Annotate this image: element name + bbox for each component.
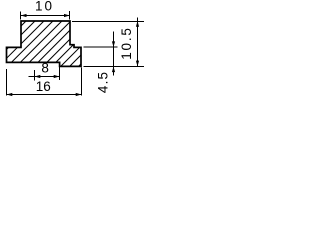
arrow left of dim 10 xyxy=(21,14,27,17)
arrow above (outside) of dim 4.5 xyxy=(112,41,115,47)
dimension 10 (top) xyxy=(21,11,70,20)
dimension line xyxy=(29,76,60,78)
part outline (stepped T-section) xyxy=(7,21,82,66)
dimension 10.5 (right, full height) xyxy=(72,18,144,67)
arrow left of dim 8 xyxy=(35,75,41,78)
dimension line xyxy=(21,15,70,17)
extension line left xyxy=(6,69,8,96)
arrow right of dim 10 xyxy=(64,14,70,17)
svg-text:4.5: 4.5 xyxy=(95,71,110,93)
extension line left xyxy=(20,12,22,20)
svg-text:8: 8 xyxy=(41,61,49,76)
hatching xyxy=(2,0,145,82)
extension line bottom xyxy=(84,66,145,68)
extension line top xyxy=(84,46,118,48)
arrow right of dim 8 xyxy=(54,75,60,78)
dimension 16 (bottom overall) xyxy=(7,68,82,96)
arrow top of dim 10.5 xyxy=(136,21,139,27)
dimension 4.5 (right, step to bottom) xyxy=(84,32,118,76)
dimension line xyxy=(7,94,82,96)
extension line right xyxy=(69,11,71,20)
svg-text:16: 16 xyxy=(36,79,51,94)
svg-text:10: 10 xyxy=(35,0,54,13)
extension line left xyxy=(34,70,36,81)
dimension 8 (bottom step) xyxy=(29,67,60,81)
dimension line xyxy=(113,32,115,76)
arrow bottom of dim 10.5 xyxy=(136,61,139,67)
arrow below (outside) of dim 4.5 xyxy=(112,67,115,73)
extension line top xyxy=(72,21,144,23)
dimension line xyxy=(137,18,139,67)
extension line right xyxy=(81,68,83,96)
arrow left of dim 16 xyxy=(7,93,13,96)
extension line right xyxy=(59,67,61,80)
svg-text:10.5: 10.5 xyxy=(119,26,134,59)
arrow right of dim 16 xyxy=(76,93,82,96)
